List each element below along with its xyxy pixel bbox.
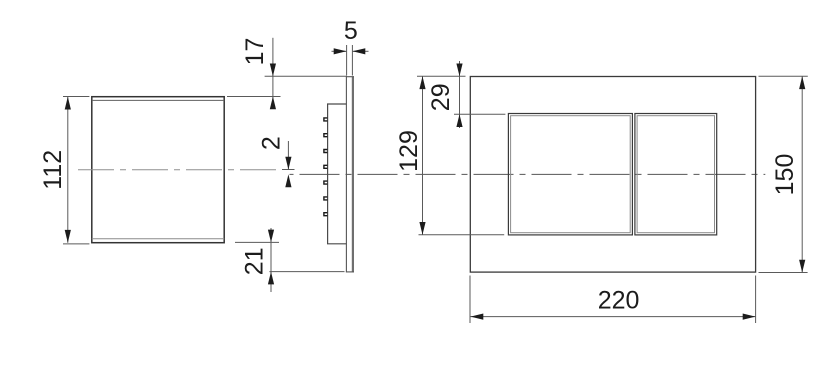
svg-text:29: 29 — [427, 83, 455, 111]
left view: inner top edge line — [92, 99, 224, 101]
middle view: plate in profile, back face — [352, 76, 354, 272]
svg-text:2: 2 — [258, 136, 286, 150]
middle view: plate top edge — [346, 76, 354, 78]
dimension 2: dimension line — [287, 141, 289, 170]
centerline axis of middle and right views — [290, 173, 766, 175]
dimension 17: extension lines — [227, 38, 347, 107]
right view: large flush button outer — [508, 114, 632, 235]
dimension 5: arrowheads — [334, 48, 366, 54]
right view: small flush button inner — [637, 116, 714, 233]
dimension 17: arrowheads — [270, 64, 276, 110]
svg-text:112: 112 — [39, 150, 67, 190]
svg-text:150: 150 — [771, 154, 799, 196]
dimension 129: extension line — [419, 234, 505, 236]
dimension 5: extension lines above plate — [332, 45, 369, 76]
dimension 2: arrowheads — [285, 157, 291, 188]
svg-text:129: 129 — [395, 130, 423, 172]
dimension 21: extension lines — [235, 228, 345, 292]
right view: plate outline — [470, 77, 755, 273]
right view: large flush button inner — [511, 116, 631, 233]
dimension 29: extension lines — [417, 61, 505, 128]
middle view: mounting block outline — [328, 104, 347, 244]
middle view: clip hooks — [324, 118, 328, 216]
dimension 150: extension lines — [759, 76, 808, 272]
dimension 129: arrowheads — [419, 76, 425, 235]
centerline axis of left view — [78, 169, 281, 171]
left view: frame box outline — [92, 97, 224, 243]
dimension 220: arrowheads — [471, 314, 756, 320]
dimension 21: arrowheads — [268, 230, 274, 285]
middle view: plate in profile, front face — [345, 76, 347, 272]
svg-text:21: 21 — [241, 247, 269, 275]
dimension 112: extension lines — [63, 97, 89, 244]
left view: inner bottom edge line — [92, 238, 224, 240]
dimension 220: extension lines — [470, 276, 756, 324]
dimension 112: arrowheads — [65, 97, 71, 243]
dimension 129: dimension line — [422, 76, 424, 235]
svg-text:17: 17 — [241, 38, 269, 66]
right view: small flush button outer — [635, 114, 717, 235]
svg-text:220: 220 — [598, 286, 640, 314]
dimension 2: axis offset tick — [282, 169, 295, 171]
dimension 29: arrowheads — [456, 64, 462, 128]
svg-text:5: 5 — [344, 17, 358, 45]
dimension 150: arrowheads — [799, 76, 805, 272]
middle view: plate bottom edge — [346, 271, 354, 273]
